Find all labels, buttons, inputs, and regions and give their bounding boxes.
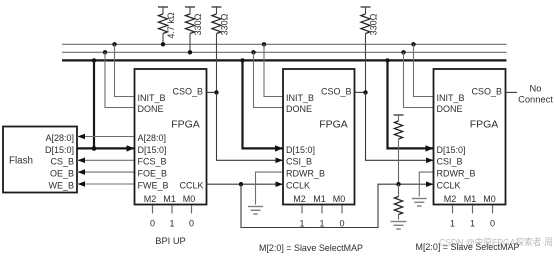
svg-text:1: 1 bbox=[319, 218, 324, 228]
svg-text:D[15:0]: D[15:0] bbox=[437, 145, 466, 155]
wire DONE drop to FPGA1 bbox=[103, 50, 135, 107]
junction CCLK termination node bbox=[396, 182, 400, 186]
svg-text:CSI_B: CSI_B bbox=[437, 157, 463, 167]
junction R2/DONE rail bbox=[188, 50, 192, 54]
svg-text:No: No bbox=[530, 83, 542, 93]
svg-text:M2: M2 bbox=[144, 194, 157, 204]
svg-text:FPGA: FPGA bbox=[171, 119, 200, 131]
resistor R5 CCLK termination pull-up bbox=[394, 115, 404, 184]
svg-text:FPGA: FPGA bbox=[470, 119, 499, 131]
wire CSO_B FPGA2 to CSI_B FPGA3 bbox=[355, 90, 434, 163]
svg-text:BPI UP: BPI UP bbox=[155, 236, 185, 246]
FPGA U1 (BPI master) bbox=[135, 69, 207, 205]
svg-text:CCLK: CCLK bbox=[286, 180, 310, 190]
svg-text:0: 0 bbox=[150, 218, 155, 228]
svg-text:M1: M1 bbox=[313, 194, 326, 204]
resistor R1 4.7 kOhm pull-up on INIT_B bbox=[158, 7, 176, 44]
svg-text:CSO_B: CSO_B bbox=[172, 86, 203, 96]
FPGA1 mode values 0 1 0 bbox=[150, 218, 194, 228]
svg-text:FPGA: FPGA bbox=[319, 119, 348, 131]
svg-text:FCS_B: FCS_B bbox=[138, 157, 167, 167]
svg-text:0: 0 bbox=[339, 218, 344, 228]
svg-text:CCLK: CCLK bbox=[179, 180, 203, 190]
svg-text:RDWR_B: RDWR_B bbox=[437, 169, 476, 179]
Flash memory U-Flash bbox=[3, 127, 77, 193]
svg-text:M[2:0] = Slave SelectMAP: M[2:0] = Slave SelectMAP bbox=[259, 243, 363, 253]
svg-text:1: 1 bbox=[450, 218, 455, 228]
svg-text:Connect: Connect bbox=[518, 95, 553, 105]
svg-text:OE_B: OE_B bbox=[50, 169, 74, 179]
svg-text:1: 1 bbox=[169, 218, 174, 228]
wire DONE drop to FPGA3 bbox=[401, 50, 433, 107]
wire data bus D[15:0] Flash to FPGA1 bbox=[77, 145, 135, 151]
svg-text:Flash: Flash bbox=[9, 155, 33, 166]
FPGA2 mode pin stubs M2 M1 M0 bbox=[302, 205, 342, 213]
ground for RDWR_B FPGA3 bbox=[412, 172, 434, 206]
svg-text:INIT_B: INIT_B bbox=[138, 93, 166, 103]
svg-text:DONE: DONE bbox=[286, 104, 312, 114]
FPGA3 mode pin stubs M2 M1 M0 bbox=[453, 205, 493, 213]
svg-text:CSO_B: CSO_B bbox=[321, 86, 352, 96]
svg-text:1: 1 bbox=[299, 218, 304, 228]
svg-text:0: 0 bbox=[189, 218, 194, 228]
FPGA2 mode values 1 1 0 bbox=[299, 218, 344, 228]
resistor R4 330 Ohm pull-up on CSO_B of FPGA2 bbox=[361, 7, 379, 92]
svg-text:330Ω: 330Ω bbox=[220, 13, 230, 35]
svg-text:M1: M1 bbox=[464, 194, 477, 204]
FPGA3 mode values 1 1 0 bbox=[450, 218, 495, 228]
INIT_B rail bbox=[62, 43, 507, 45]
wire INIT_B drop to FPGA3 bbox=[411, 42, 433, 96]
svg-text:M0: M0 bbox=[483, 194, 496, 204]
svg-text:DONE: DONE bbox=[138, 104, 164, 114]
svg-text:DONE: DONE bbox=[437, 104, 463, 114]
junction R1/INIT_B rail bbox=[161, 42, 165, 46]
wire D[15:0] bus drop to FPGA3 bbox=[385, 58, 433, 151]
wire INIT_B drop to FPGA1 bbox=[112, 42, 134, 96]
FPGA U3 (slave SelectMAP, last in chain) bbox=[434, 69, 506, 205]
svg-text:FWE_B: FWE_B bbox=[138, 180, 169, 190]
wire FOE_B FPGA1 to Flash OE_B bbox=[77, 169, 135, 175]
ground for RDWR_B FPGA2 bbox=[248, 172, 283, 214]
wire CSO_B FPGA1 to CSI_B FPGA2 bbox=[207, 90, 284, 163]
svg-text:INIT_B: INIT_B bbox=[286, 93, 314, 103]
svg-text:M0: M0 bbox=[333, 194, 346, 204]
svg-text:0: 0 bbox=[490, 218, 495, 228]
wire CSO_B FPGA3 no connect stub bbox=[506, 91, 518, 93]
resistor R3 330 Ohm pull-up on CSO_B of FPGA1 bbox=[212, 7, 230, 92]
wire INIT_B drop to FPGA2 bbox=[262, 42, 283, 96]
svg-text:M2: M2 bbox=[444, 194, 457, 204]
wire DONE drop to FPGA2 bbox=[251, 50, 283, 107]
FPGA1 mode pin stubs M2 M1 M0 bbox=[153, 205, 192, 213]
svg-text:FOE_B: FOE_B bbox=[138, 169, 168, 179]
svg-text:M1: M1 bbox=[163, 194, 176, 204]
svg-text:D[15:0]: D[15:0] bbox=[286, 145, 315, 155]
D[15:0] bus rail bbox=[62, 59, 507, 61]
wire D[15:0] bus drop to Flash/FPGA1 bbox=[92, 58, 97, 151]
ground for CCLK termination bbox=[391, 222, 407, 230]
svg-text:330Ω: 330Ω bbox=[193, 13, 203, 35]
svg-text:RDWR_B: RDWR_B bbox=[286, 169, 325, 179]
svg-text:D[15:0]: D[15:0] bbox=[138, 145, 167, 155]
svg-text:CSI_B: CSI_B bbox=[286, 157, 312, 167]
wire address bus A[28:0] FPGA1 to Flash bbox=[77, 134, 135, 140]
DONE rail bbox=[62, 51, 507, 53]
resistor R2 330 Ohm pull-up on DONE bbox=[185, 7, 203, 52]
label No Connect bbox=[518, 83, 553, 104]
wire FCS_B FPGA1 to Flash CS_B bbox=[77, 158, 135, 164]
svg-text:4.7 kΩ: 4.7 kΩ bbox=[166, 12, 176, 39]
svg-text:D[15:0]: D[15:0] bbox=[45, 145, 74, 155]
wire CCLK FPGA1 to FPGA2 and FPGA3 bbox=[207, 181, 434, 227]
svg-text:M0: M0 bbox=[183, 194, 196, 204]
FPGA U2 (slave SelectMAP) bbox=[283, 69, 355, 205]
wire D[15:0] bus drop to FPGA2 bbox=[240, 58, 283, 151]
svg-text:CS_B: CS_B bbox=[50, 157, 74, 167]
svg-text:WE_B: WE_B bbox=[48, 180, 74, 190]
svg-text:M[2:0] = Slave SelectMAP: M[2:0] = Slave SelectMAP bbox=[416, 242, 520, 252]
svg-text:CCLK: CCLK bbox=[437, 180, 461, 190]
resistor R6 CCLK termination pull-down bbox=[394, 184, 402, 219]
svg-text:INIT_B: INIT_B bbox=[437, 93, 465, 103]
svg-text:M2: M2 bbox=[293, 194, 306, 204]
svg-text:A[28:0]: A[28:0] bbox=[45, 133, 74, 143]
svg-text:1: 1 bbox=[470, 218, 475, 228]
svg-text:A[28:0]: A[28:0] bbox=[138, 133, 167, 143]
svg-text:330Ω: 330Ω bbox=[369, 13, 379, 35]
svg-text:CSO_B: CSO_B bbox=[471, 86, 502, 96]
wire FWE_B FPGA1 to Flash WE_B bbox=[77, 181, 135, 187]
